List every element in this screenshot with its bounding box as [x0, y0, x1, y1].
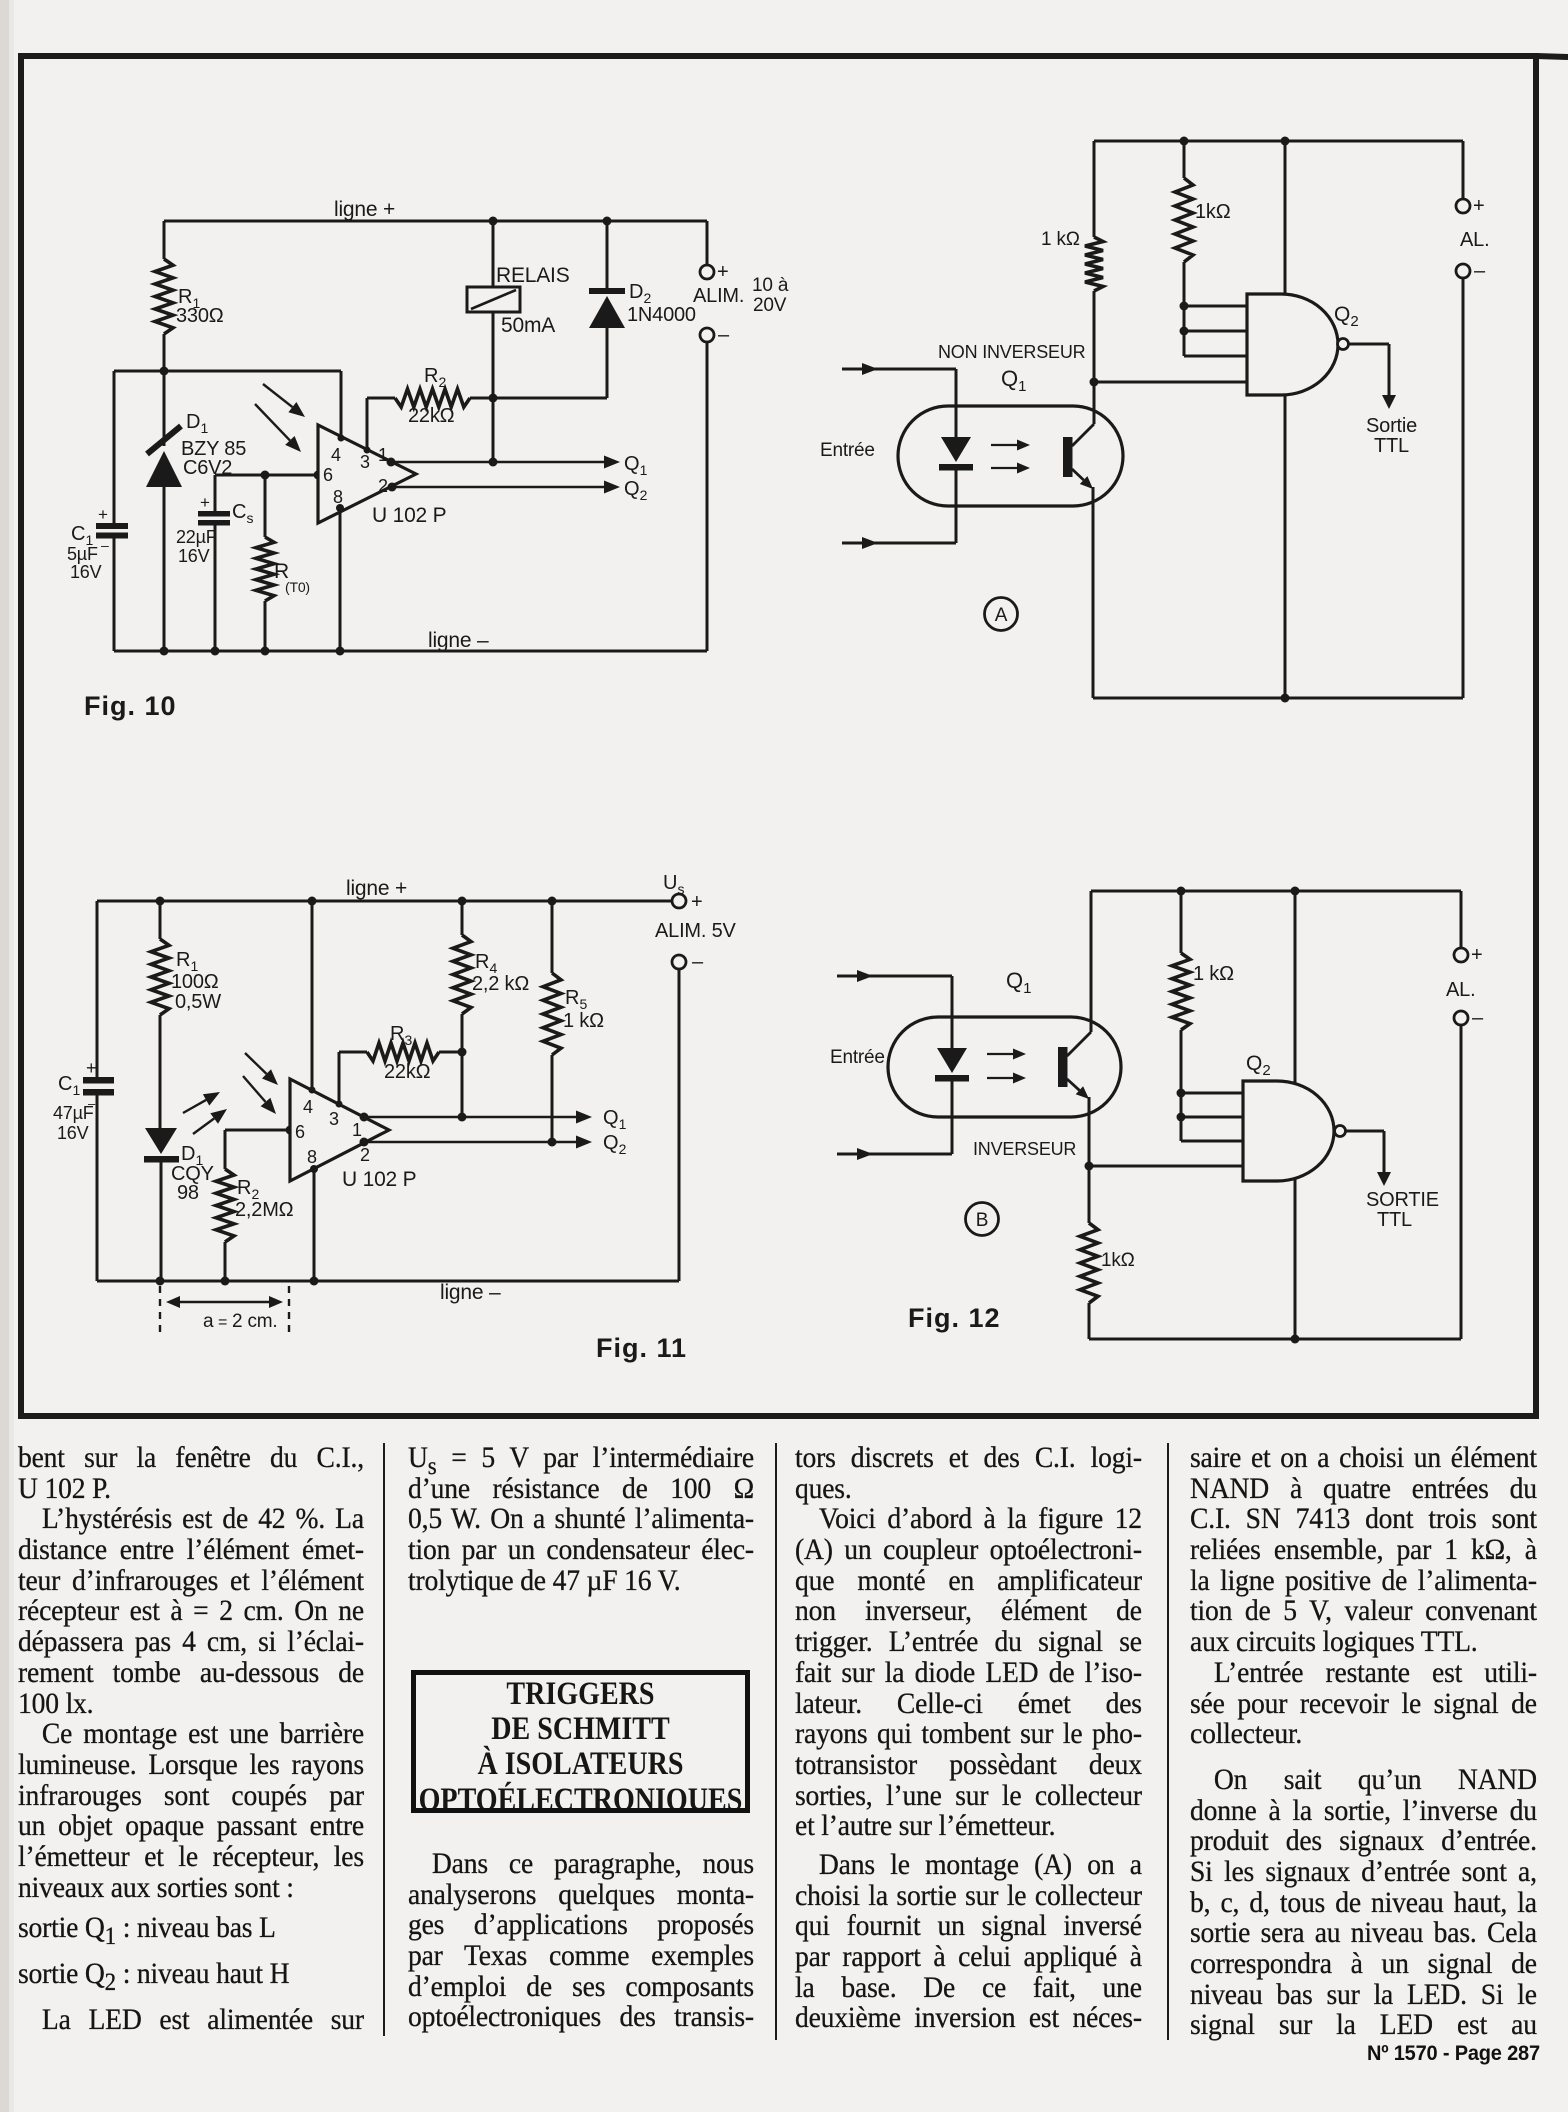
Sortie TTL label fig12A: [1366, 415, 1417, 457]
svg-text:98: 98: [177, 1182, 199, 1204]
D2 labels: [627, 281, 696, 326]
svg-text:+: +: [717, 261, 728, 283]
1k upper label fig12B: [1193, 963, 1234, 985]
pin 4 wire fig10: [331, 371, 345, 465]
NAND gate Q2 fig12A: [1247, 294, 1349, 395]
svg-text:R5: R5: [565, 987, 587, 1012]
svg-text:+: +: [98, 505, 108, 524]
zener diode D1 BZY85 C6V2: [146, 371, 182, 651]
emitter junction node fig12B: [1085, 1162, 1094, 1171]
AL label fig12A: [1460, 229, 1489, 251]
pin8 wire fig11: [307, 1147, 318, 1281]
LED emission arrows fig11: [183, 1092, 227, 1134]
wire 4th NAND input fig12A: [1094, 381, 1247, 384]
Entree label fig12B: [830, 1047, 885, 1068]
output Q1 wire fig10: [387, 456, 621, 469]
svg-text:1: 1: [378, 445, 388, 465]
Entree input top wire fig12A: [842, 363, 956, 437]
Entree label fig12A: [820, 440, 875, 461]
svg-text:5µF: 5µF: [67, 544, 98, 564]
svg-text:20V: 20V: [753, 295, 787, 316]
svg-text:ligne –: ligne –: [428, 629, 489, 652]
svg-text:2,2 kΩ: 2,2 kΩ: [472, 973, 529, 995]
light arrows into U1 fig11: [243, 1053, 278, 1114]
svg-text:Q2: Q2: [624, 478, 648, 503]
output Q2 wire fig10: [388, 481, 621, 494]
NON INVERSEUR label: [938, 342, 1086, 362]
svg-text:100Ω: 100Ω: [171, 971, 219, 993]
Entree input top wire fig12B: [837, 970, 952, 1048]
svg-text:Fig. 12: Fig. 12: [908, 1303, 1001, 1333]
ALIM label fig10: [693, 275, 789, 316]
resistor R4 2.2k fig11: [453, 901, 471, 1117]
Entree input bottom wire fig12A: [842, 470, 956, 549]
svg-text:2: 2: [360, 1145, 370, 1165]
resistor 1k (collector) fig12A: [1085, 141, 1103, 424]
svg-text:1kΩ: 1kΩ: [1195, 201, 1231, 223]
svg-text:TTL: TTL: [1374, 435, 1409, 457]
svg-text:(T0): (T0): [285, 579, 310, 595]
C1 value labels fig11: [53, 1073, 96, 1143]
svg-text:Q2: Q2: [1334, 303, 1359, 330]
svg-text:1N4000: 1N4000: [627, 304, 696, 326]
Fig 10: net ligne+ top rail wire: [164, 217, 707, 226]
wire pin6 to R2 fig11: [225, 1126, 295, 1135]
Fig 12A: top rail wire AL+: [1094, 137, 1463, 146]
R4 labels fig11: [472, 951, 529, 995]
svg-text:–: –: [101, 537, 109, 553]
C1 value label fig10: [67, 523, 109, 582]
svg-text:R3: R3: [390, 1023, 412, 1048]
1k label right fig12A: [1195, 201, 1231, 223]
svg-text:16V: 16V: [57, 1123, 89, 1143]
terminal AL + fig12B: [1454, 891, 1482, 966]
svg-text:1 kΩ: 1 kΩ: [1041, 229, 1080, 250]
vertical bus wire through gate fig12B: [1294, 891, 1297, 1339]
svg-text:Q1: Q1: [624, 453, 648, 478]
dimension arrow a=2cm fig11: [166, 1296, 283, 1332]
svg-text:6: 6: [323, 465, 333, 485]
vertical bus wire through gate region fig12A: [1284, 141, 1287, 698]
phototransistor fig12B: [1058, 1032, 1091, 1166]
resistor R1 100ohm 0.5W fig11: [151, 901, 169, 1128]
svg-text:B: B: [976, 1210, 988, 1231]
U102P label fig10: [372, 504, 446, 527]
light arrows into U1 fig10: [255, 384, 305, 452]
svg-text:ALIM.: ALIM.: [693, 285, 744, 307]
svg-text:3: 3: [329, 1109, 339, 1129]
svg-text:8: 8: [333, 487, 343, 507]
svg-text:Fig. 11: Fig. 11: [596, 1333, 687, 1363]
terminal AL - fig12B: [1454, 1007, 1484, 1339]
capacitor Cs 22uF 16V: [198, 475, 230, 651]
Q1 label fig12B: [1006, 968, 1031, 997]
relay RELAIS 50mA: [467, 221, 520, 462]
svg-text:+: +: [691, 891, 702, 913]
svg-text:TTL: TTL: [1377, 1209, 1412, 1231]
wire: inner top node from C1 branch to pin4 drop, junction at R1: [114, 367, 341, 376]
AL label fig12B: [1446, 979, 1475, 1001]
optocoupler Q1 body fig12A: [898, 406, 1123, 506]
svg-text:2,2MΩ: 2,2MΩ: [235, 1199, 294, 1221]
resistor R2 2.2M fig11: [216, 1130, 234, 1281]
svg-text:Us: Us: [663, 872, 684, 897]
svg-text:8: 8: [307, 1147, 317, 1167]
terminal AL + fig12A: [1456, 141, 1484, 217]
phototransistor fig12A: [1063, 424, 1094, 698]
terminal - fig11: [672, 951, 704, 1281]
svg-text:2 cm.: 2 cm.: [232, 1311, 277, 1332]
1k lower label fig12B: [1101, 1250, 1135, 1271]
svg-text:AL.: AL.: [1446, 979, 1475, 1001]
Fig 10 net label ligne+: [334, 198, 395, 221]
Q2 label fig12B: [1246, 1052, 1271, 1079]
ligne+ label fig11: [346, 877, 407, 900]
border frame of figure area: [21, 56, 1568, 1416]
SORTIE TTL label fig12B: [1366, 1189, 1439, 1231]
svg-text:+: +: [86, 1058, 96, 1078]
Q2 label fig11: [360, 1132, 627, 1165]
svg-text:AL.: AL.: [1460, 229, 1489, 251]
resistor 1k lower fig12B: [1080, 1166, 1098, 1339]
output Q1 wire fig11: [360, 1111, 593, 1124]
svg-text:Q1: Q1: [603, 1107, 627, 1132]
Fig 12B: top rail wire: [1091, 887, 1461, 896]
capacitor C1 5uF 16V fig10: [96, 371, 128, 651]
svg-text:D2: D2: [629, 281, 651, 306]
wire: node pin6 of U102P to Cs and R(T0): [215, 471, 323, 480]
optocoupler Q1 body fig12B: [888, 1017, 1121, 1117]
svg-text:=: =: [218, 1314, 227, 1331]
op-amp U1 U102P fig11: [290, 1079, 389, 1181]
net ligne- bottom rail fig10: [114, 647, 707, 656]
svg-text:0,5W: 0,5W: [175, 991, 221, 1013]
svg-text:Sortie: Sortie: [1366, 415, 1417, 437]
svg-text:Q2: Q2: [1246, 1052, 1271, 1079]
INVERSEUR label: [973, 1139, 1076, 1159]
wire 4th NAND input fig12B: [1089, 1165, 1243, 1168]
svg-text:22µF: 22µF: [176, 527, 217, 547]
svg-text:1: 1: [352, 1120, 362, 1140]
svg-text:R2: R2: [424, 365, 446, 390]
net ligne- bottom rail fig11: [97, 1277, 679, 1286]
pin6 label fig11: [295, 1122, 305, 1142]
svg-text:+: +: [1471, 944, 1482, 966]
svg-text:Fig. 10: Fig. 10: [84, 691, 177, 721]
svg-text:330Ω: 330Ω: [176, 305, 224, 327]
capacitor C1 47uF 16V fig11: [83, 901, 114, 1281]
ligne- label fig10: [428, 629, 489, 652]
svg-text:Cs: Cs: [232, 501, 253, 526]
circled A marker: [985, 598, 1018, 631]
svg-text:INVERSEUR: INVERSEUR: [973, 1139, 1076, 1159]
pin3 wire fig11: [329, 1052, 343, 1129]
svg-text:+: +: [1473, 195, 1484, 217]
LED of optocoupler fig12A: [939, 437, 973, 471]
pin 8 wire fig10: [333, 487, 344, 651]
svg-text:1 kΩ: 1 kΩ: [1193, 963, 1234, 985]
svg-text:+: +: [200, 493, 210, 512]
svg-text:22kΩ: 22kΩ: [384, 1061, 431, 1083]
svg-text:4: 4: [331, 445, 341, 465]
svg-text:C1: C1: [58, 1073, 80, 1098]
ligne- label fig11: [440, 1281, 501, 1304]
svg-text:–: –: [718, 324, 730, 346]
svg-text:A: A: [995, 605, 1008, 626]
R(T0) label: [274, 560, 310, 595]
D1 labels fig11: [171, 1143, 214, 1204]
LED of optocoupler fig12B: [935, 1048, 969, 1082]
svg-text:Entrée: Entrée: [830, 1047, 885, 1068]
ALIM 5V label fig11: [655, 920, 737, 942]
svg-text:U 102 P: U 102 P: [342, 1168, 416, 1191]
pin 6 label fig10: [323, 465, 333, 485]
Fig 11: net ligne+ top rail: [97, 897, 672, 906]
svg-text:22kΩ: 22kΩ: [408, 405, 455, 427]
Q2 label fig10: [378, 476, 648, 503]
1k label left fig12A: [1041, 229, 1080, 250]
svg-text:SORTIE: SORTIE: [1366, 1189, 1439, 1211]
terminal ALIM - fig10: [700, 324, 730, 651]
junction collector node fig12A: [1090, 378, 1099, 387]
R1 value label fig10: [176, 286, 224, 327]
svg-text:10 à: 10 à: [752, 275, 789, 296]
output Q2 wire fig11: [360, 1136, 593, 1149]
feedback resistor R3 22k fig11: [339, 1043, 467, 1061]
svg-text:ligne +: ligne +: [346, 877, 407, 900]
svg-text:Q1: Q1: [1006, 968, 1031, 997]
LED D1 CQY98 fig11: [144, 1128, 179, 1281]
pin 3 wire fig10: [360, 398, 371, 472]
svg-text:4: 4: [303, 1097, 313, 1117]
svg-text:–: –: [1474, 260, 1486, 282]
SORTIE TTL output wire fig12B: [1346, 1131, 1391, 1186]
R2 value label fig10: [408, 365, 455, 427]
svg-text:6: 6: [295, 1122, 305, 1142]
Q2 label fig12A: [1334, 303, 1359, 330]
svg-text:ligne –: ligne –: [440, 1281, 501, 1304]
svg-text:Q1: Q1: [1001, 366, 1026, 395]
svg-text:a: a: [203, 1311, 214, 1332]
svg-text:D1: D1: [186, 411, 208, 436]
svg-text:1kΩ: 1kΩ: [1101, 1250, 1135, 1271]
Fig.10 caption: [84, 691, 177, 721]
svg-text:16V: 16V: [178, 546, 210, 566]
svg-text:U 102 P: U 102 P: [372, 504, 446, 527]
resistor 1k upper fig12B: [1172, 891, 1190, 1141]
Q1 label fig12A: [1001, 366, 1026, 395]
bottom rail wire fig12A: [1093, 694, 1463, 703]
circled B marker: [966, 1203, 999, 1236]
Cs value label: [176, 501, 253, 566]
resistor R1 330ohm fig10: [155, 221, 173, 371]
Q1 label fig10: [378, 445, 648, 478]
RELAIS label: [496, 264, 570, 337]
R2 labels fig11: [235, 1177, 294, 1221]
collector wire fig12B: [1090, 891, 1093, 1032]
resistor 1k (NAND inputs) fig12A: [1175, 141, 1193, 356]
resistor R(T0): [256, 475, 274, 651]
svg-text:Q2: Q2: [603, 1132, 627, 1157]
svg-text:3: 3: [360, 452, 370, 472]
svg-text:Entrée: Entrée: [820, 440, 875, 461]
Sortie TTL output wire fig12A: [1349, 344, 1396, 409]
NAND input stub wires fig12B: [1177, 1089, 1244, 1142]
NAND gate Q2 fig12B: [1243, 1081, 1346, 1181]
Entree input bottom wire fig12B: [837, 1081, 952, 1160]
resistor R5 1k fig11: [543, 901, 561, 1142]
D1 labels fig10: [181, 411, 246, 479]
terminal AL - fig12A: [1456, 260, 1486, 698]
svg-text:RELAIS: RELAIS: [496, 264, 570, 287]
svg-text:2: 2: [378, 476, 388, 496]
svg-text:–: –: [88, 1096, 96, 1111]
bottom rail wire fig12B: [1089, 1335, 1461, 1344]
light coupling arrows fig12A: [991, 440, 1030, 474]
svg-text:ALIM. 5V: ALIM. 5V: [655, 920, 737, 942]
diode D2 1N4000: [589, 221, 625, 398]
NAND input stub wires fig12A: [1180, 302, 1248, 357]
R3 labels fig11: [384, 1023, 431, 1083]
scanner edge shading: [0, 0, 14, 2112]
pin4 wire fig11: [303, 901, 316, 1117]
light coupling arrows fig12B: [987, 1049, 1026, 1084]
svg-text:NON INVERSEUR: NON INVERSEUR: [938, 342, 1086, 362]
op-amp U1 U102P fig10: [318, 425, 416, 523]
svg-text:–: –: [692, 951, 704, 973]
dashed distance lines fig11: [160, 1286, 289, 1334]
Fig.12 caption: [908, 1303, 1001, 1333]
resistor R2 22k fig10: [367, 389, 607, 407]
Q1 label fig11: [352, 1107, 627, 1140]
svg-text:ligne +: ligne +: [334, 198, 395, 221]
svg-text:–: –: [1472, 1007, 1484, 1029]
terminal ALIM + fig10: [700, 221, 728, 283]
U102P label fig11: [342, 1168, 416, 1191]
R1 labels fig11: [171, 949, 221, 1013]
R5 labels fig11: [563, 987, 604, 1032]
svg-text:1 kΩ: 1 kΩ: [563, 1010, 604, 1032]
Fig.11 caption: [596, 1333, 687, 1363]
terminal Us + fig11: [663, 872, 702, 913]
svg-text:50mA: 50mA: [501, 314, 555, 337]
svg-text:16V: 16V: [70, 562, 102, 582]
